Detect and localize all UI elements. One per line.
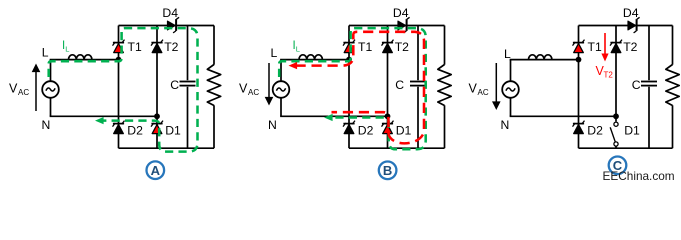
svg-text:D1: D1	[396, 124, 412, 138]
svg-text:T1: T1	[588, 40, 602, 54]
svg-text:T2: T2	[395, 40, 409, 54]
svg-text:V: V	[469, 82, 478, 96]
svg-text:D2: D2	[587, 124, 603, 138]
svg-text:V: V	[239, 82, 248, 96]
svg-text:C: C	[632, 78, 641, 92]
svg-text:V: V	[9, 82, 18, 96]
svg-text:T1: T1	[128, 40, 142, 54]
svg-text:D4: D4	[623, 6, 639, 20]
svg-text:D1: D1	[624, 124, 640, 138]
svg-text:N: N	[501, 118, 510, 132]
svg-text:EEChina.com: EEChina.com	[603, 169, 675, 183]
svg-text:L: L	[296, 45, 300, 54]
svg-text:T1: T1	[358, 40, 372, 54]
svg-text:T2: T2	[623, 40, 637, 54]
svg-text:L: L	[504, 47, 511, 61]
svg-text:N: N	[42, 118, 51, 132]
svg-text:L: L	[271, 46, 278, 60]
svg-text:T2: T2	[604, 71, 614, 80]
svg-text:A: A	[151, 163, 161, 178]
svg-text:AC: AC	[478, 88, 489, 97]
svg-text:AC: AC	[18, 88, 29, 97]
svg-text:D1: D1	[165, 124, 181, 138]
svg-text:C: C	[395, 78, 404, 92]
svg-text:N: N	[268, 118, 277, 132]
svg-text:C: C	[170, 78, 179, 92]
svg-text:L: L	[42, 46, 49, 60]
svg-text:B: B	[383, 163, 392, 178]
svg-text:AC: AC	[248, 88, 259, 97]
svg-text:L: L	[65, 45, 69, 54]
svg-text:D4: D4	[162, 6, 178, 20]
svg-text:D2: D2	[127, 124, 143, 138]
svg-text:D2: D2	[358, 124, 374, 138]
svg-text:T2: T2	[164, 40, 178, 54]
svg-text:D4: D4	[393, 6, 409, 20]
